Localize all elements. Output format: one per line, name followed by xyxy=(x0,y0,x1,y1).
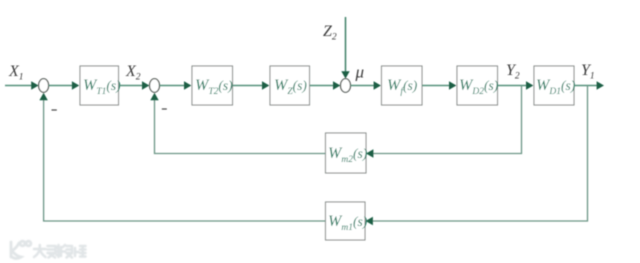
watermark logo xyxy=(11,241,31,258)
wire Y2 drop to Wm2 xyxy=(369,86,522,154)
wire WT1 to sum2 xyxy=(119,85,148,87)
watermark text xyxy=(34,245,86,258)
wire input X1 xyxy=(5,85,37,87)
minus sign sum1 xyxy=(52,109,57,111)
wire Wm2 to sum2 xyxy=(155,97,326,154)
svg-text:μ: μ xyxy=(355,63,365,82)
block WD2 xyxy=(457,66,498,105)
wire Wf to WD2 xyxy=(422,85,454,87)
node sum2 xyxy=(150,79,160,93)
wire sum2 to WT2 xyxy=(160,85,190,87)
block WD1 xyxy=(534,66,574,105)
block Wf xyxy=(382,66,423,105)
minus sign sum2 xyxy=(162,108,167,110)
node sum1 xyxy=(39,79,49,93)
block WT1 xyxy=(80,66,119,105)
wire sum3 to Wf xyxy=(351,85,379,87)
block Wm1 xyxy=(326,202,366,240)
block Wm2 xyxy=(326,133,367,173)
svg-text:Z2: Z2 xyxy=(323,23,337,43)
svg-text:Y2: Y2 xyxy=(506,62,520,82)
svg-text:Y1: Y1 xyxy=(581,62,595,82)
wire WZ to sum3 xyxy=(310,85,339,87)
block WZ xyxy=(270,66,310,105)
svg-text:X1: X1 xyxy=(8,63,24,83)
wire output Y1 xyxy=(574,85,597,87)
wire Wm1 to sum1 xyxy=(44,97,326,221)
wire Y1 drop to Wm1 xyxy=(368,86,588,222)
node sum3 xyxy=(341,79,351,93)
wire Z2 input xyxy=(345,17,347,76)
block WT2 xyxy=(192,66,233,105)
wire sum1 to WT1 xyxy=(49,85,77,87)
wire WD2 to WD1 with Y2 takeoff xyxy=(498,85,532,87)
svg-text:X2: X2 xyxy=(125,63,141,83)
wire WT2 to WZ xyxy=(233,85,268,87)
